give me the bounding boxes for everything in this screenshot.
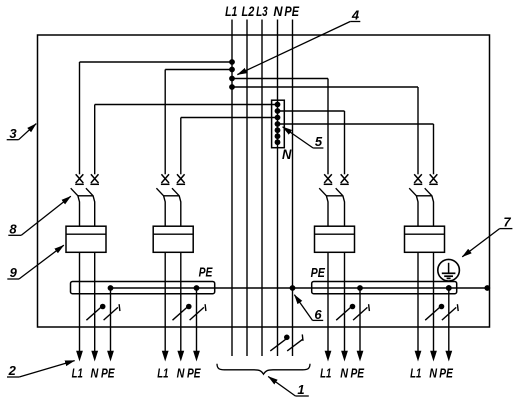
svg-text:PE: PE <box>284 4 299 19</box>
svg-text:PE: PE <box>187 365 201 380</box>
svg-text:L1: L1 <box>320 365 331 380</box>
svg-text:4: 4 <box>351 8 360 23</box>
svg-text:N: N <box>177 365 185 380</box>
svg-text:PE: PE <box>199 265 213 280</box>
svg-text:N: N <box>91 365 99 380</box>
svg-text:L1: L1 <box>410 365 421 380</box>
svg-text:L3: L3 <box>256 4 268 19</box>
svg-text:PE: PE <box>439 365 453 380</box>
svg-text:PE: PE <box>311 265 325 280</box>
svg-text:L2: L2 <box>242 4 255 19</box>
svg-text:L1: L1 <box>72 365 83 380</box>
svg-text:5: 5 <box>315 134 323 149</box>
svg-text:N: N <box>429 365 437 380</box>
svg-text:9: 9 <box>10 265 18 280</box>
svg-text:8: 8 <box>9 221 17 236</box>
svg-text:7: 7 <box>503 215 511 230</box>
svg-text:2: 2 <box>8 363 17 378</box>
svg-text:L1: L1 <box>225 4 237 19</box>
svg-text:PE: PE <box>351 365 365 380</box>
svg-text:L1: L1 <box>157 365 168 380</box>
svg-text:3: 3 <box>9 126 17 141</box>
svg-text:PE: PE <box>101 365 115 380</box>
svg-text:N: N <box>340 365 348 380</box>
svg-text:N: N <box>282 147 292 162</box>
svg-text:6: 6 <box>314 307 322 322</box>
svg-text:N: N <box>273 4 282 19</box>
svg-text:1: 1 <box>297 382 304 397</box>
